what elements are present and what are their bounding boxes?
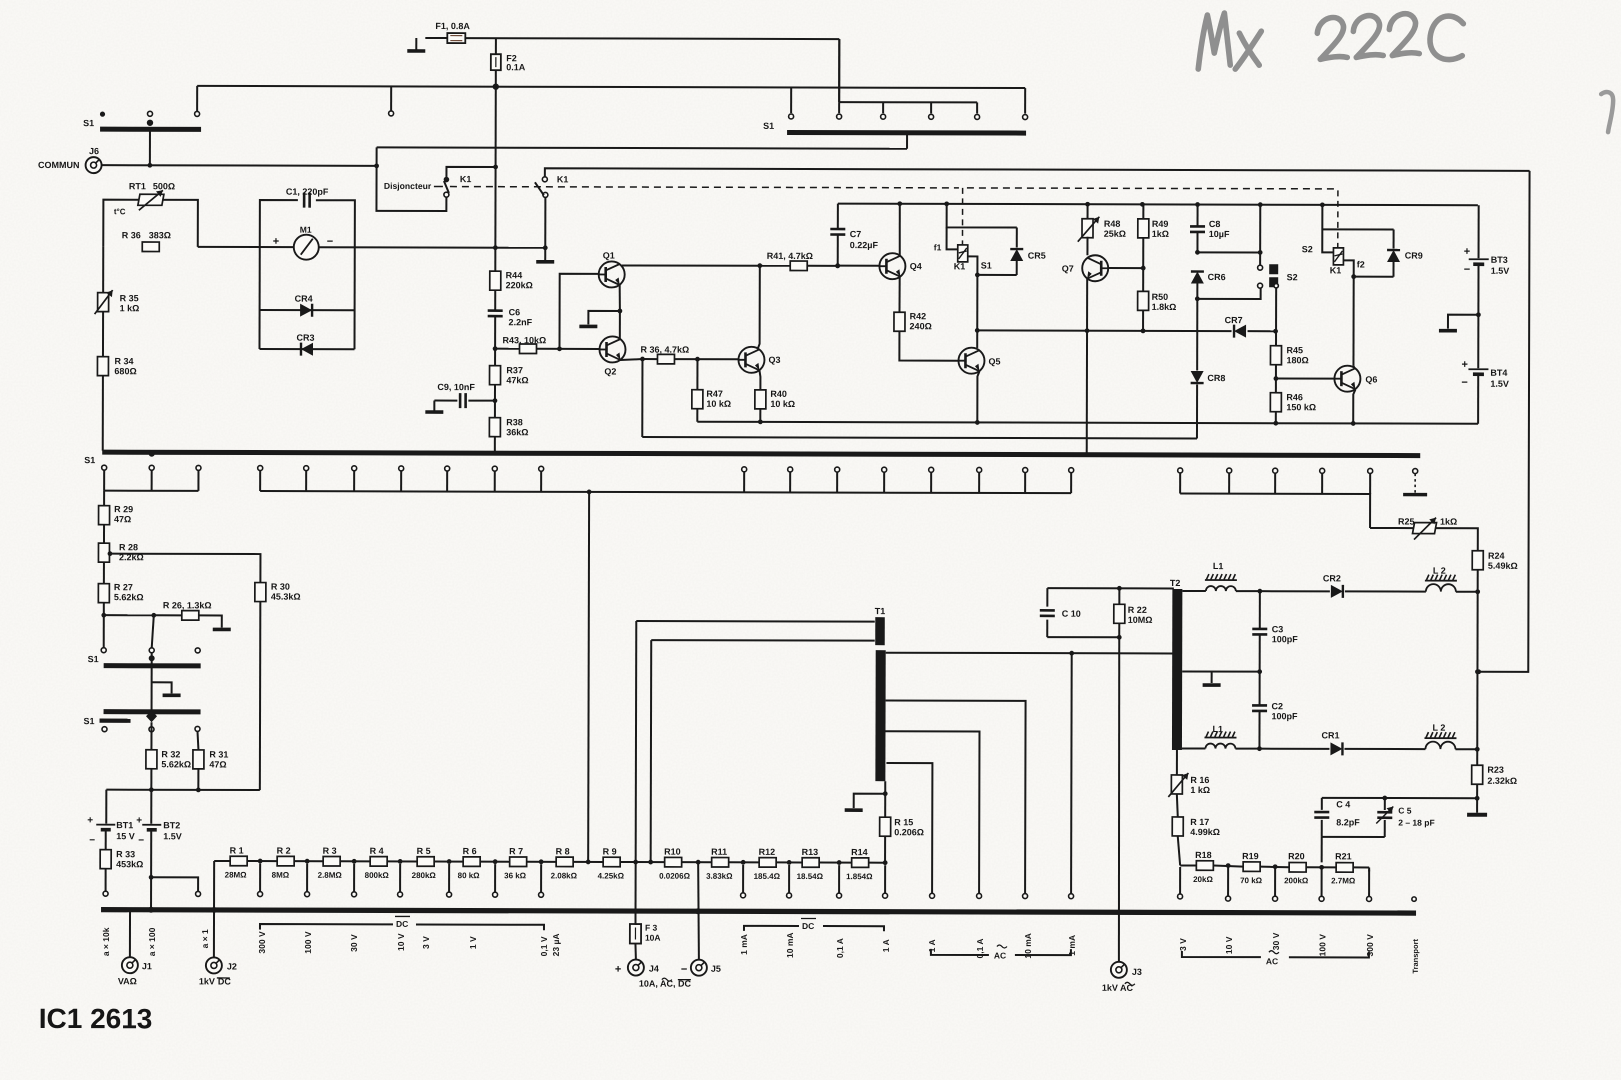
- label 1mA: [1067, 935, 1077, 956]
- wire wafer feed: [104, 613, 156, 648]
- svg-text:1kV AC: 1kV AC: [1102, 983, 1134, 993]
- wire right edge drop: [1476, 171, 1529, 675]
- wire T1 primary risers: [636, 621, 652, 862]
- jack J4 10A plus: [615, 959, 692, 988]
- svg-text:R46: R46: [1286, 392, 1303, 402]
- wire CR9 loop: [1322, 229, 1393, 276]
- svg-text:K1: K1: [557, 174, 569, 184]
- node AC chain junctions: [1226, 863, 1369, 871]
- transistor Q6: [1334, 366, 1377, 392]
- svg-text:BT4: BT4: [1490, 368, 1507, 378]
- svg-text:8.2pF: 8.2pF: [1336, 817, 1360, 827]
- transformer T2 core: [1169, 578, 1182, 750]
- inductor L2 bottom: [1344, 722, 1479, 751]
- svg-text:0,1 A: 0,1 A: [835, 938, 845, 958]
- svg-text:L 2: L 2: [1432, 723, 1445, 733]
- label 30V: [349, 934, 359, 952]
- label 3V: [421, 936, 431, 949]
- wire R24 R23 vertical: [1475, 592, 1480, 750]
- svg-text:R 16: R 16: [1190, 775, 1209, 785]
- label 30V ac: [1271, 932, 1281, 950]
- svg-text:J2: J2: [227, 961, 237, 971]
- svg-text:2.32kΩ: 2.32kΩ: [1487, 776, 1517, 786]
- label IC1 2613: [39, 1003, 153, 1034]
- resistor R33 453kohm: [100, 849, 143, 896]
- diode CR5: [1010, 228, 1046, 276]
- ground wafer2: [152, 682, 181, 695]
- svg-text:280kΩ: 280kΩ: [412, 871, 437, 880]
- svg-text:100 V: 100 V: [303, 931, 313, 954]
- svg-text:AC: AC: [1266, 956, 1278, 966]
- switch S2 wafer: [1258, 264, 1298, 288]
- svg-text:R24: R24: [1488, 551, 1505, 561]
- wire top bus y87: [197, 86, 1025, 88]
- svg-text:100pF: 100pF: [1272, 711, 1299, 721]
- rheostat R16 1kohm: [1168, 750, 1210, 797]
- wire rail y422: [697, 419, 1478, 426]
- label 300V: [257, 931, 267, 954]
- svg-text:S1: S1: [84, 716, 95, 726]
- wire M1 line: [198, 244, 546, 250]
- resistor R22 10Mohm: [1114, 588, 1153, 637]
- switch S1 right bar: [763, 121, 1026, 133]
- svg-text:1.8kΩ: 1.8kΩ: [1152, 302, 1177, 312]
- svg-text:f2: f2: [1357, 259, 1365, 269]
- svg-text:J4: J4: [649, 964, 659, 974]
- svg-text:2.08kΩ: 2.08kΩ: [551, 871, 578, 880]
- svg-text:R19: R19: [1242, 851, 1259, 861]
- svg-text:47Ω: 47Ω: [114, 514, 131, 524]
- bus S1 main: [84, 451, 1420, 469]
- svg-text:18.54Ω: 18.54Ω: [797, 872, 824, 881]
- svg-text:S1: S1: [83, 118, 94, 128]
- svg-text:R23: R23: [1487, 765, 1504, 775]
- node S1 stray dot: [100, 112, 105, 117]
- svg-text:C6: C6: [509, 307, 521, 317]
- svg-text:DC: DC: [396, 919, 408, 929]
- svg-text:R 36: R 36: [122, 230, 141, 240]
- svg-text:R 17: R 17: [1190, 817, 1209, 827]
- svg-text:R 26, 1.3kΩ: R 26, 1.3kΩ: [163, 600, 212, 610]
- svg-text:R 4: R 4: [370, 846, 384, 856]
- svg-text:CR9: CR9: [1405, 251, 1423, 261]
- label Transport: [1411, 938, 1420, 973]
- node contact 790: [789, 114, 794, 119]
- svg-text:500Ω: 500Ω: [153, 181, 175, 191]
- svg-text:J6: J6: [89, 146, 99, 156]
- label 1A ac: [927, 939, 937, 952]
- svg-text:L1: L1: [1213, 561, 1224, 571]
- resistor R36b 4.7kohm: [640, 345, 738, 365]
- wire T1 bottom: [883, 781, 888, 817]
- svg-text:CR5: CR5: [1028, 251, 1046, 261]
- wire Q1 collector line: [622, 263, 791, 268]
- resistor R41 4.7kohm: [767, 251, 840, 271]
- wire contact stems: [104, 470, 1415, 494]
- svg-text:5.62kΩ: 5.62kΩ: [114, 592, 144, 602]
- label 10mA: [1023, 933, 1033, 959]
- svg-text:C 10: C 10: [1062, 609, 1081, 619]
- ground battery mid: [1439, 315, 1478, 331]
- resistor R31 47ohm: [193, 731, 229, 792]
- capacitor C9 10nF: [425, 382, 497, 412]
- svg-text:+: +: [273, 236, 279, 248]
- handwriting corner mark: [1601, 92, 1613, 132]
- label 1V: [468, 936, 478, 949]
- label 10V: [396, 933, 406, 951]
- node AC chain circles: [1178, 867, 1372, 902]
- svg-text:a × 1: a × 1: [200, 929, 210, 948]
- bracket AC volts: [1182, 950, 1369, 966]
- svg-text:R 6: R 6: [463, 846, 477, 856]
- diode CR8: [1190, 299, 1225, 439]
- svg-text:1 mA: 1 mA: [1067, 935, 1077, 956]
- svg-text:R45: R45: [1286, 345, 1303, 355]
- wire T1 tap3: [885, 731, 982, 898]
- svg-text:2.8MΩ: 2.8MΩ: [318, 871, 343, 880]
- node F2 junction: [493, 83, 499, 89]
- ground T2 mid: [1203, 672, 1221, 686]
- wire Q6 collector: [1353, 366, 1354, 368]
- wire K1 S1 CR5 loop: [946, 204, 1017, 333]
- svg-text:R13: R13: [802, 847, 819, 857]
- svg-text:R14: R14: [851, 847, 868, 857]
- node chain contact circles: [258, 864, 888, 899]
- svg-text:CR2: CR2: [1323, 573, 1341, 583]
- battery BT2 1.5V: [136, 790, 182, 847]
- svg-text:Disjoncteur: Disjoncteur: [384, 181, 432, 191]
- wire C4 C5 top: [1322, 795, 1477, 800]
- svg-text:8MΩ: 8MΩ: [272, 871, 290, 880]
- transistor Q5: [958, 348, 1000, 374]
- wire S1 right bar to y148: [906, 134, 908, 148]
- svg-text:Q2: Q2: [604, 366, 616, 376]
- wire amp rail y203: [838, 201, 1478, 207]
- node chain junctions: [258, 859, 888, 865]
- label a x100: [147, 927, 157, 956]
- resistor R50 1.8kohm: [1138, 268, 1177, 333]
- svg-text:J3: J3: [1132, 967, 1142, 977]
- svg-text:R44: R44: [506, 270, 523, 280]
- svg-text:VAΩ: VAΩ: [118, 976, 137, 986]
- svg-text:100 V: 100 V: [1317, 934, 1327, 957]
- svg-text:1kΩ: 1kΩ: [1152, 229, 1169, 239]
- svg-text:23 µA: 23 µA: [551, 933, 561, 956]
- svg-text:R 1: R 1: [230, 845, 244, 855]
- resistor R45 180ohm: [1270, 331, 1308, 381]
- wire mid rail y330: [977, 314, 1278, 337]
- svg-text:1 V: 1 V: [468, 936, 478, 949]
- label 23uA: [551, 933, 561, 956]
- wire contact link C: [1180, 493, 1370, 527]
- svg-text:1.854Ω: 1.854Ω: [846, 872, 873, 881]
- svg-text:4.99kΩ: 4.99kΩ: [1190, 827, 1220, 837]
- svg-text:15 V: 15 V: [116, 831, 135, 841]
- resistor R26 1.3kohm: [154, 600, 231, 629]
- svg-text:R 5: R 5: [417, 846, 431, 856]
- svg-text:5.49kΩ: 5.49kΩ: [1488, 561, 1518, 571]
- rheostat R25 1kohm: [1370, 516, 1478, 550]
- jack J2 1kV DC: [199, 957, 237, 986]
- ground R23: [1467, 798, 1487, 815]
- svg-text:L1: L1: [1212, 724, 1223, 734]
- svg-text:AC: AC: [994, 950, 1006, 960]
- switch K1 second contact: [535, 174, 569, 197]
- svg-text:2.7MΩ: 2.7MΩ: [1331, 876, 1356, 885]
- svg-text:f1: f1: [934, 242, 942, 252]
- svg-text:30 V: 30 V: [349, 934, 359, 952]
- label 300V ac: [1365, 934, 1375, 957]
- svg-text:K1: K1: [1330, 265, 1342, 275]
- svg-text:RT1: RT1: [129, 181, 146, 191]
- wire AC chain: [1180, 865, 1369, 867]
- svg-text:t°C: t°C: [114, 207, 126, 216]
- svg-text:K1: K1: [460, 174, 472, 184]
- label a x10k: [101, 927, 111, 956]
- wire Q5 collector: [976, 330, 978, 347]
- resistor R42 240ohm: [894, 277, 959, 361]
- svg-text:BT1: BT1: [116, 820, 133, 830]
- capacitor C5 2-18pF: [1376, 798, 1434, 837]
- label 1mA dc: [739, 934, 749, 955]
- resistor R37 47kohm: [490, 349, 529, 386]
- wire F1 right drop: [838, 39, 840, 102]
- svg-text:K1: K1: [954, 261, 966, 271]
- fuse F3 10A: [630, 862, 661, 960]
- wire Q4 collector: [899, 204, 901, 256]
- svg-text:S1: S1: [763, 121, 774, 131]
- wire BT2 to bus: [148, 830, 201, 913]
- svg-text:10 kΩ: 10 kΩ: [770, 399, 795, 409]
- node S1 left upper contact: [195, 111, 200, 116]
- svg-text:L 2: L 2: [1433, 566, 1446, 576]
- fuse F2 0.1A: [491, 38, 526, 87]
- capacitor C6 2.2nF: [488, 290, 533, 349]
- resistor R17 4.99kohm: [1172, 794, 1220, 866]
- capacitor C8 10uF: [1190, 204, 1230, 254]
- diode CR3: [259, 333, 354, 356]
- svg-text:−: −: [681, 964, 687, 976]
- wire coil K1b right F2: [1343, 259, 1364, 279]
- resistor R15 0.206ohm: [880, 817, 924, 863]
- svg-text:M1: M1: [300, 225, 312, 235]
- resistor R49 1kohm: [1138, 204, 1169, 268]
- svg-text:10MΩ: 10MΩ: [1128, 615, 1153, 625]
- wire S2 output drop: [1275, 288, 1277, 331]
- svg-text:−: −: [327, 236, 333, 248]
- handwriting Mx 222C: [1198, 13, 1463, 70]
- svg-text:R20: R20: [1288, 851, 1305, 861]
- wire Q5 emitter: [977, 371, 979, 422]
- node wafer2 contacts: [88, 648, 201, 665]
- svg-text:36 kΩ: 36 kΩ: [504, 871, 527, 880]
- svg-text:0.206Ω: 0.206Ω: [894, 827, 924, 837]
- wire R28 to R30: [109, 554, 260, 583]
- svg-text:C9, 10nF: C9, 10nF: [437, 382, 475, 392]
- svg-text:Q7: Q7: [1062, 264, 1074, 274]
- svg-text:−: −: [89, 835, 95, 846]
- bracket AC amps: [931, 945, 1071, 961]
- wire J2 riser: [211, 861, 217, 958]
- fuse F1 0.8A: [435, 21, 470, 43]
- diode CR2: [1260, 573, 1343, 598]
- svg-text:a × 100: a × 100: [147, 927, 157, 956]
- svg-text:R12: R12: [759, 847, 776, 857]
- svg-text:R40: R40: [770, 389, 787, 399]
- svg-text:BT2: BT2: [163, 820, 180, 830]
- wire top bus y87 drop left: [790, 87, 792, 112]
- svg-text:DC: DC: [802, 921, 814, 931]
- svg-text:1 A: 1 A: [881, 939, 891, 952]
- svg-text:R 36, 4.7kΩ: R 36, 4.7kΩ: [640, 345, 689, 355]
- wire RT1 frame: [103, 200, 198, 247]
- capacitor C3 100pF: [1252, 591, 1298, 674]
- inductor L1 top: [1182, 561, 1262, 594]
- node contacts right S1: [837, 114, 980, 119]
- inductor L1 bottom: [1182, 724, 1262, 751]
- jack J5 minus: [681, 960, 721, 976]
- svg-text:150 kΩ: 150 kΩ: [1286, 402, 1316, 412]
- label 100V ac: [1317, 934, 1327, 957]
- resistor R21 2.7Mohm: [1331, 851, 1356, 885]
- svg-text:680Ω: 680Ω: [114, 366, 136, 376]
- svg-text:47Ω: 47Ω: [209, 759, 226, 769]
- svg-text:R 27: R 27: [114, 582, 133, 592]
- svg-text:300 V: 300 V: [1365, 934, 1375, 957]
- resistor R43 10kohm: [502, 335, 546, 353]
- wire T1 tap2: [885, 700, 1028, 898]
- wire T1 tap4: [886, 763, 935, 898]
- wire long drop x589: [587, 492, 590, 862]
- wire dashed S2 coil feed: [1337, 190, 1339, 247]
- capacitor C7 0.22uF: [830, 204, 878, 269]
- transistor Q4: [879, 253, 921, 279]
- relay coil K1: [934, 242, 992, 271]
- resistor R20 200kohm: [1284, 851, 1309, 885]
- wire Q7 base: [1108, 266, 1145, 271]
- wire R43 line: [493, 346, 600, 351]
- diode CR6: [1191, 271, 1226, 301]
- node transport contact: [1412, 897, 1416, 901]
- svg-text:S1: S1: [84, 455, 95, 465]
- svg-text:220kΩ: 220kΩ: [506, 280, 533, 290]
- svg-text:BT3: BT3: [1491, 255, 1508, 265]
- svg-text:R50: R50: [1152, 292, 1169, 302]
- svg-text:CR7: CR7: [1225, 315, 1243, 325]
- svg-text:R41, 4.7kΩ: R41, 4.7kΩ: [767, 251, 813, 261]
- bracket DC amps: [744, 918, 884, 931]
- svg-text:R 31: R 31: [209, 749, 228, 759]
- resistor R24 5.49kohm: [1472, 551, 1518, 595]
- svg-text:R 15: R 15: [894, 817, 913, 827]
- svg-text:0.0206Ω: 0.0206Ω: [659, 872, 690, 881]
- inductor L2 top: [1345, 565, 1478, 591]
- svg-text:3 V: 3 V: [1178, 938, 1188, 951]
- resistor R28 2.2kohm: [98, 542, 143, 562]
- svg-text:0.1A: 0.1A: [506, 62, 526, 72]
- svg-text:185.4Ω: 185.4Ω: [754, 872, 781, 881]
- label Disjoncteur: [384, 181, 432, 191]
- wire K1b drop to Q6: [1352, 277, 1354, 366]
- label 10V ac: [1224, 936, 1234, 954]
- rheostat R48 25kohm: [1078, 204, 1126, 242]
- svg-text:C3: C3: [1272, 624, 1284, 634]
- svg-text:CR6: CR6: [1208, 272, 1226, 282]
- jack J1 VA-ohm: [118, 912, 152, 987]
- resistor R44 220kohm: [490, 248, 533, 291]
- label 10mA dc: [785, 932, 795, 958]
- label 3V ac: [1178, 938, 1188, 951]
- transistor Q7 mirrored: [1062, 237, 1109, 282]
- switch S1 wafer3 left stub: [99, 721, 130, 732]
- wire top line y148: [377, 147, 907, 148]
- svg-text:47kΩ: 47kΩ: [506, 375, 528, 385]
- svg-text:R 34: R 34: [114, 356, 133, 366]
- svg-text:−: −: [138, 835, 144, 846]
- svg-text:20kΩ: 20kΩ: [1193, 875, 1213, 884]
- label 0.1V: [539, 936, 549, 956]
- svg-text:R 28: R 28: [119, 542, 138, 552]
- svg-text:Q4: Q4: [910, 261, 922, 271]
- svg-text:S1: S1: [981, 260, 992, 270]
- svg-text:J1: J1: [142, 961, 152, 971]
- diode CR9: [1387, 230, 1423, 277]
- svg-text:R25: R25: [1398, 517, 1415, 527]
- svg-text:S1: S1: [88, 654, 99, 664]
- svg-text:800kΩ: 800kΩ: [365, 871, 390, 880]
- wire J5 riser: [695, 862, 701, 960]
- svg-text:R37: R37: [506, 365, 523, 375]
- wire COMMUN to disjoncteur: [101, 163, 379, 169]
- resistor R30 45.3kohm: [254, 582, 300, 791]
- svg-text:CR4: CR4: [295, 294, 313, 304]
- diode CR4: [260, 294, 355, 317]
- svg-text:C8: C8: [1209, 219, 1221, 229]
- svg-text:S2: S2: [1302, 244, 1313, 254]
- svg-text:0.22µF: 0.22µF: [850, 240, 879, 250]
- svg-text:IC1 2613: IC1 2613: [39, 1003, 153, 1034]
- svg-text:R 33: R 33: [116, 849, 135, 859]
- wire K1-2 top to right edge: [545, 168, 1530, 179]
- wire T1 tap1: [886, 650, 1174, 656]
- wire Q6 base: [1276, 378, 1334, 380]
- switch S1 left bar: [83, 118, 201, 129]
- label 1A dc: [881, 939, 891, 952]
- resistor R40 10kohm: [755, 370, 795, 422]
- resistor R29 47ohm: [98, 491, 133, 544]
- svg-text:C 5: C 5: [1398, 806, 1412, 816]
- svg-text:100pF: 100pF: [1272, 634, 1299, 644]
- svg-text:+: +: [87, 815, 93, 826]
- svg-text:240Ω: 240Ω: [910, 321, 932, 331]
- svg-text:1.5V: 1.5V: [163, 831, 182, 841]
- svg-text:J5: J5: [711, 964, 721, 974]
- battery BT3 1.5V: [1464, 205, 1510, 276]
- node R36b junction: [695, 357, 700, 362]
- ground T1 bottom: [845, 794, 886, 811]
- svg-text:C 4: C 4: [1336, 799, 1350, 809]
- battery BT1 15V: [87, 815, 135, 850]
- svg-text:T1: T1: [875, 606, 886, 616]
- wire S1 to COMMUN line: [147, 131, 152, 167]
- svg-text:80 kΩ: 80 kΩ: [458, 871, 481, 880]
- svg-text:R 9: R 9: [603, 846, 617, 856]
- wire F1 top line with ground: [407, 38, 839, 52]
- wire Q7 emitter to bus: [1086, 331, 1088, 455]
- svg-text:1kΩ: 1kΩ: [1440, 517, 1457, 527]
- resistors R1-R14: [225, 845, 874, 881]
- svg-text:10µF: 10µF: [1209, 229, 1230, 239]
